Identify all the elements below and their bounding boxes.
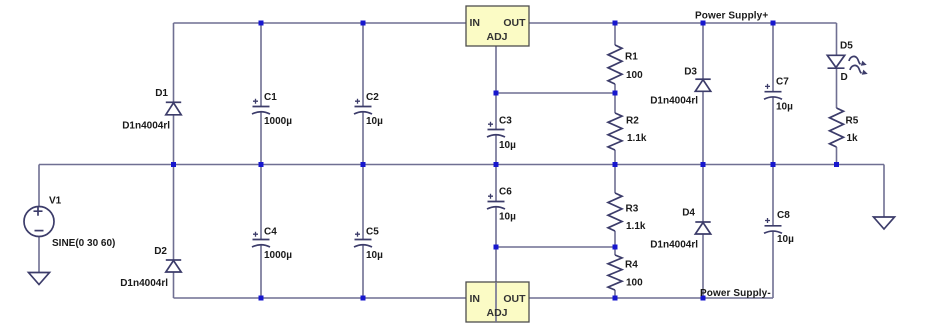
svg-text:OUT: OUT [503,293,526,305]
junction bottom C4 [259,296,264,301]
junction adj row bottom left [494,245,499,250]
voltage source V1 [24,207,54,237]
wire C8 bottom lead [772,231,774,298]
ground under V1 [29,273,50,285]
wire C6 bottom lead [495,207,497,247]
diode D2 [166,260,181,272]
capacitor C6 [487,194,505,209]
svg-text:R3: R3 [626,204,639,215]
junction mid R5 [834,162,839,167]
wire C5 top lead [362,165,364,240]
junction mid C2 [361,162,366,167]
ground right [874,217,895,229]
wire R1 top lead [614,23,616,45]
capacitor C5 [354,232,372,247]
wire D5 to R5 [836,68,838,108]
svg-text:100: 100 [626,70,643,81]
wire D2 lead upper [173,165,175,261]
wire R3 bottom lead [614,231,616,247]
svg-text:10µ: 10µ [366,250,383,261]
svg-text:10µ: 10µ [776,102,793,113]
wire ADJ row top [496,92,615,94]
wire mid rail [39,164,884,166]
wire C3 bottom lead [495,135,497,165]
svg-text:C4: C4 [264,227,277,238]
wire C4 top lead [260,165,262,240]
wire right ground drop [883,165,885,218]
svg-text:R2: R2 [626,116,639,127]
resistor R5 [830,108,844,147]
svg-text:10µ: 10µ [366,116,383,127]
capacitor C2 [354,99,372,114]
svg-text:OUT: OUT [503,17,526,29]
wire U1 ADJ pin lead [495,46,497,93]
diode D1 [166,102,181,115]
capacitor C4 [252,232,270,247]
svg-text:10µ: 10µ [777,234,794,245]
svg-text:1.1k: 1.1k [626,221,646,232]
svg-text:C5: C5 [366,227,379,238]
svg-text:D1n4004rl: D1n4004rl [650,96,698,107]
svg-text:1000µ: 1000µ [264,116,292,127]
svg-text:R4: R4 [625,260,638,271]
svg-text:10µ: 10µ [499,212,516,223]
junction top C1 [259,21,264,26]
svg-text:Power Supply-: Power Supply- [700,288,771,299]
resistor R3 [608,193,622,231]
svg-text:SINE(0 30 60): SINE(0 30 60) [52,238,115,249]
junction adj row top right [613,91,618,96]
capacitor C3 [487,122,505,137]
svg-text:ADJ: ADJ [486,307,507,319]
junction top D3 [701,21,706,26]
wire R4 bottom lead [614,290,616,298]
capacitor C1 [252,99,270,114]
junction mid C7 [771,162,776,167]
junction adj row top left [494,91,499,96]
svg-text:D4: D4 [682,208,695,219]
resistor R1 [608,45,622,84]
junction bottom D4 [701,296,706,301]
wire D5 anode lead [836,23,838,55]
wire C4 bottom lead [260,245,262,298]
resistor R4 [608,255,622,290]
wire D3 anode lead [702,91,704,164]
wire C5 bottom lead [362,245,364,298]
wire ADJ row bottom [496,246,615,248]
svg-text:10µ: 10µ [499,140,516,151]
wire R5 bottom lead [836,147,838,165]
junction mid D3 [701,162,706,167]
wire C3 top lead [495,93,497,130]
junction mid D1 [171,162,176,167]
capacitor C8 [764,218,782,233]
wire D2 lead lower [173,272,175,298]
wire R3 top lead [614,165,616,194]
svg-text:C8: C8 [777,210,790,221]
wire C1 bottom lead [260,112,262,165]
wire C7 bottom lead [772,97,774,164]
svg-text:D1n4004rl: D1n4004rl [650,240,698,251]
wire C6 top lead [495,165,497,202]
svg-text:IN: IN [470,17,481,29]
wire D4 anode lead [702,234,704,298]
wire V1 bottom lead to ground [38,237,40,273]
wire R2 top lead [614,93,616,113]
svg-text:C2: C2 [366,92,379,103]
svg-text:D: D [841,72,848,83]
wire D1 cathode lead [173,115,175,165]
junction bottom C5 [361,296,366,301]
wire R4 top lead [614,247,616,255]
diode D4 [695,222,710,234]
wire U2 ADJ pin lead [495,247,497,322]
svg-text:100: 100 [626,278,643,289]
svg-text:D3: D3 [684,66,697,77]
wire V1 top lead [38,165,40,207]
regulator U1 [466,6,529,46]
capacitor C7 [764,84,782,99]
svg-text:D1: D1 [155,88,168,99]
svg-text:D1n4004rl: D1n4004rl [120,278,168,289]
junction top C2 [361,21,366,26]
svg-text:Power Supply+: Power Supply+ [695,11,768,22]
svg-text:C7: C7 [776,77,789,88]
LED D5 [827,55,867,74]
junction top C7 [771,21,776,26]
wire R2 bottom lead [614,150,616,165]
regulator U2 [466,282,529,322]
wire C2 bottom lead [362,112,364,165]
junction bottom R4 [613,296,618,301]
svg-text:V1: V1 [49,196,62,207]
wire C2 top lead [362,23,364,107]
resistor R2 [608,113,622,150]
junction adj row bottom right [613,245,618,250]
svg-text:1.1k: 1.1k [627,133,647,144]
junction top R1 [613,21,618,26]
wire D3 cathode lead [702,23,704,79]
diode D3 [695,79,710,91]
svg-text:C6: C6 [499,187,512,198]
wire bottom rail right segment [529,297,773,299]
wire C8 top lead [772,165,774,226]
junction mid R2 [613,162,618,167]
svg-text:ADJ: ADJ [486,31,507,43]
wire bottom rail left segment [174,297,467,299]
svg-text:R1: R1 [625,52,638,63]
wire C1 top lead [260,23,262,107]
svg-text:R5: R5 [846,116,859,127]
svg-text:1000µ: 1000µ [264,250,292,261]
wire D4 cathode lead [702,165,704,223]
svg-text:D2: D2 [154,246,167,257]
wire C7 top lead [772,23,774,92]
svg-text:C3: C3 [499,116,512,127]
svg-text:D5: D5 [840,40,853,51]
wire R1 bottom lead [614,84,616,93]
wire D1 anode lead [173,23,175,102]
svg-text:D1n4004rl: D1n4004rl [122,120,170,131]
svg-text:IN: IN [470,293,481,305]
svg-text:C1: C1 [264,92,277,103]
wire top rail left segment [174,22,467,24]
wire top rail right segment [529,22,837,24]
junction mid C1 [259,162,264,167]
junction mid C3 [494,162,499,167]
svg-text:1k: 1k [847,133,859,144]
